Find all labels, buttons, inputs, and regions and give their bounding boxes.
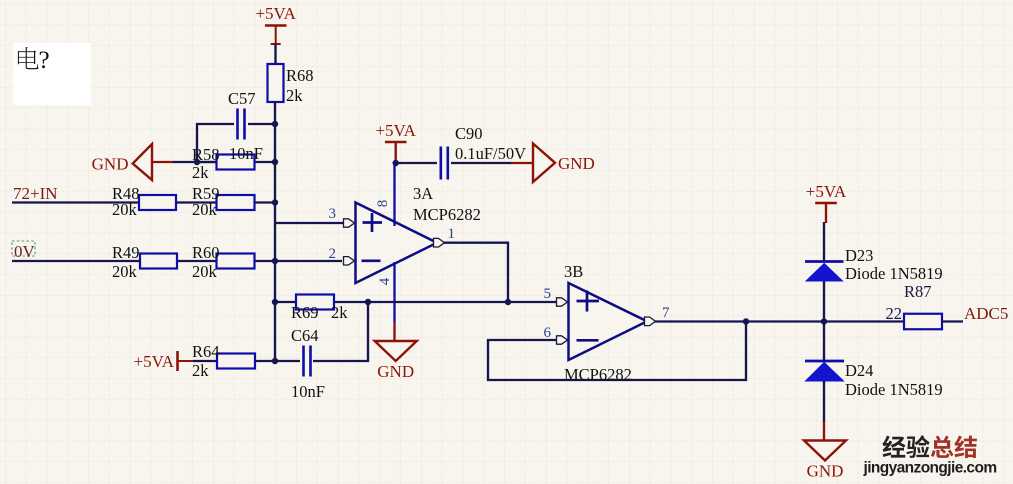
op-amp U3A output arrow	[434, 238, 445, 247]
junction J-bus-R69	[272, 299, 278, 305]
wire GND-left to R58	[173, 161, 216, 163]
wire pin6 feedback loop	[488, 322, 746, 381]
svg-text:4: 4	[377, 277, 393, 285]
wire D24 to gnd	[823, 381, 825, 422]
svg-text:D23: D23	[845, 246, 873, 265]
junction J-5VA-C90	[393, 160, 399, 166]
wire C64 row	[275, 360, 300, 362]
op-amp U3B plus	[577, 291, 600, 312]
svg-text:jingyanzongjie.com: jingyanzongjie.com	[862, 460, 996, 477]
svg-text:GND: GND	[377, 362, 414, 381]
svg-text:Diode 1N5819: Diode 1N5819	[845, 380, 943, 399]
junction J-GND-R58	[194, 159, 200, 165]
svg-text:R64: R64	[192, 342, 220, 361]
svg-text:20k: 20k	[192, 200, 218, 219]
svg-text:20k: 20k	[112, 262, 138, 281]
power +5VA above R68	[265, 26, 287, 45]
svg-text:20k: 20k	[112, 200, 138, 219]
wire pin8 supply (red)	[395, 142, 397, 163]
wire R87 to ADC5	[942, 320, 963, 322]
watermark jing char	[882, 436, 905, 458]
pin arrow pin5	[557, 298, 568, 306]
wire C57 loop	[197, 124, 234, 161]
svg-text:2k: 2k	[331, 303, 348, 322]
pin arrow pin3	[344, 219, 355, 227]
junction J-bus-C64	[272, 358, 278, 364]
resistor R69 body	[296, 295, 334, 310]
junction J-out1-R69	[505, 299, 511, 305]
svg-text:72+IN: 72+IN	[13, 184, 58, 203]
resistor R60 body	[217, 254, 255, 269]
resistor R64 body	[217, 354, 255, 369]
svg-text:2k: 2k	[192, 163, 209, 182]
svg-text:+5VA: +5VA	[375, 121, 416, 140]
power +5VA above D23	[815, 203, 837, 222]
svg-text:20k: 20k	[192, 262, 218, 281]
svg-text:7: 7	[662, 305, 670, 321]
svg-text:10nF: 10nF	[229, 144, 263, 163]
resistor R59 body	[217, 195, 255, 210]
wire R64 row	[193, 360, 275, 362]
resistor R87 body	[904, 314, 942, 330]
svg-text:C64: C64	[291, 326, 319, 345]
diode D23	[805, 262, 844, 282]
op-amp U3A minus	[362, 259, 381, 262]
wire 72+IN row	[12, 201, 275, 203]
ground GND left	[133, 144, 152, 180]
power +5VA at R64	[178, 351, 195, 371]
svg-text:3: 3	[329, 206, 337, 222]
wire pin4	[393, 262, 395, 322]
wire 5VA to D23	[823, 222, 825, 262]
resistor R48 body	[139, 195, 176, 210]
svg-text:GND: GND	[92, 155, 129, 174]
wire C64 right + riser	[313, 302, 368, 361]
svg-text:D24: D24	[845, 361, 873, 380]
white note box	[13, 43, 91, 105]
wire pin4 to gnd (red)	[393, 322, 395, 341]
svg-text:R60: R60	[192, 243, 220, 262]
capacitor C90 plates	[441, 147, 448, 180]
resistor R68 body	[268, 64, 284, 102]
power +5VA above U3A pin8	[385, 142, 407, 161]
svg-text:ADC5: ADC5	[964, 304, 1008, 323]
op-amp U3A plus	[363, 213, 383, 232]
svg-text:+5VA: +5VA	[806, 182, 847, 201]
wire C57 right	[248, 123, 275, 125]
net 0V label	[12, 241, 35, 256]
op-amp U3B minus	[577, 339, 599, 342]
wire C90 to GND (red)	[511, 162, 533, 164]
svg-text:Diode 1N5819: Diode 1N5819	[845, 264, 943, 283]
svg-text:3A: 3A	[413, 184, 433, 203]
svg-text:10nF: 10nF	[291, 382, 325, 401]
wire 5VA to D23 red	[825, 203, 827, 223]
svg-text:+5VA: +5VA	[134, 352, 175, 371]
wire R58 row	[197, 161, 275, 163]
diode D24	[805, 361, 844, 381]
junction J-C57-bus	[272, 121, 278, 127]
text dian (Chinese char)	[18, 47, 39, 69]
wire C90 left	[396, 162, 437, 164]
svg-text:2k: 2k	[286, 86, 303, 105]
svg-text:2k: 2k	[192, 361, 209, 380]
svg-text:6: 6	[544, 325, 552, 341]
svg-text:22: 22	[886, 304, 903, 323]
svg-text:5: 5	[544, 286, 552, 302]
svg-text:GND: GND	[807, 462, 844, 481]
svg-text:R49: R49	[112, 243, 140, 262]
wire D23 to node	[823, 281, 825, 361]
wire C90 right	[451, 162, 512, 164]
capacitor C64 plates	[304, 346, 311, 377]
pin arrow pin6	[557, 336, 568, 344]
svg-text:GND: GND	[558, 154, 595, 173]
svg-text:C90: C90	[455, 124, 483, 143]
resistor R58 body	[217, 155, 255, 170]
svg-text:1: 1	[448, 226, 456, 242]
wire out7 row	[655, 320, 904, 322]
svg-text:2: 2	[329, 246, 337, 262]
wire R69 row	[275, 301, 556, 303]
svg-text:MCP6282: MCP6282	[413, 205, 481, 224]
svg-text:0.1uF/50V: 0.1uF/50V	[455, 144, 526, 163]
svg-text:3B: 3B	[564, 262, 583, 281]
watermark jie char	[954, 436, 977, 459]
wire 0V row	[12, 260, 342, 262]
wire R68 top lead	[274, 44, 276, 65]
wire pin8	[393, 163, 395, 226]
junction J-diodes-out7	[821, 318, 827, 324]
op-amp U3A triangle	[356, 203, 438, 284]
power pin tick	[271, 43, 281, 45]
svg-text:+5VA: +5VA	[255, 4, 296, 23]
svg-text:R87: R87	[904, 282, 932, 301]
capacitor C57 plates	[238, 109, 245, 140]
junction J-R58-bus	[272, 159, 278, 165]
junction J-feedback-out7	[743, 318, 749, 324]
svg-text:8: 8	[375, 200, 391, 208]
svg-text:0V: 0V	[14, 242, 36, 261]
ground bottom right	[804, 441, 846, 461]
svg-text:R69: R69	[291, 303, 319, 322]
wire vertical bus x=275	[274, 102, 276, 361]
svg-text:R68: R68	[286, 66, 314, 85]
watermark yan char	[907, 435, 930, 458]
wire out1 to node	[444, 243, 508, 302]
pin arrow pin2	[344, 257, 355, 265]
wire D24 to gnd red	[823, 421, 825, 440]
svg-text:MCP6282: MCP6282	[564, 365, 632, 384]
op-amp U3B triangle	[569, 283, 648, 360]
junction J-R60-bus	[272, 258, 278, 264]
junction J-R59-bus	[272, 199, 278, 205]
ground GND right of C90	[533, 144, 555, 183]
wire GND-left to R58 (red)	[152, 161, 174, 163]
watermark zong char	[931, 436, 954, 458]
svg-text:?: ?	[39, 47, 50, 74]
junction J-C64riser-R69	[365, 299, 371, 305]
resistor R49 body	[140, 254, 177, 269]
wire bus to pin3	[275, 222, 343, 224]
svg-text:C57: C57	[228, 89, 256, 108]
ground below U3A	[375, 341, 417, 361]
op-amp U3B output arrow	[645, 317, 656, 326]
